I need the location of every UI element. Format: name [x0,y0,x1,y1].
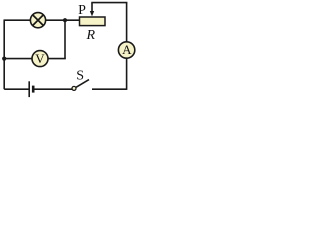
svg-text:P: P [78,3,86,18]
lamp L1 [30,13,45,28]
ammeter A [118,42,134,58]
wire switch to right rail [92,88,127,90]
wire wiper to right rail [91,2,127,4]
wire middle vertical (node to voltmeter branch) [64,20,66,58]
wire voltmeter branch [4,58,66,60]
wire battery to switch [34,88,73,90]
rheostat wiper arrow [90,3,94,17]
wire top (battery loop to rheostat) [4,19,80,21]
wire bottom [4,88,29,90]
svg-text:R: R [86,28,96,43]
node junction top [63,18,67,22]
battery cell [29,81,33,97]
wire left rail [3,20,5,89]
rheostat R body [80,17,106,26]
wire right rail [126,3,128,90]
svg-text:V: V [35,51,45,66]
node junction left [2,57,6,61]
voltmeter V [32,51,48,67]
switch S [72,80,89,91]
svg-text:A: A [122,42,132,57]
svg-text:S: S [76,68,84,83]
